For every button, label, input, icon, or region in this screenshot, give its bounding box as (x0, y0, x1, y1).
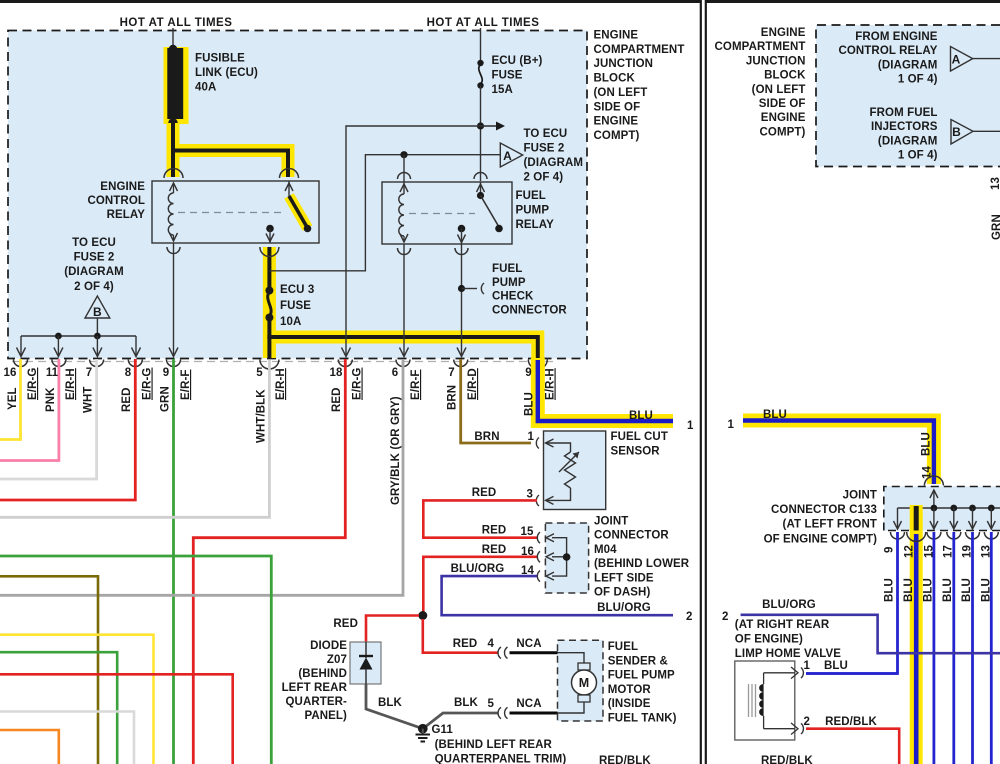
svg-text:RED: RED (121, 387, 133, 412)
flag A (from engine control relay) (951, 47, 973, 72)
svg-text:BLU/ORG: BLU/ORG (597, 602, 651, 614)
svg-text:JUNCTION: JUNCTION (746, 55, 806, 67)
svg-text:M: M (579, 676, 590, 690)
svg-text:9: 9 (884, 547, 896, 554)
fuel pump relay box (382, 182, 512, 244)
right page top border (706, 0, 1000, 3)
svg-text:E/R-H: E/R-H (545, 368, 557, 400)
C133 internal bus (898, 507, 1000, 509)
svg-text:E/R-F: E/R-F (410, 369, 422, 400)
svg-text:15: 15 (521, 526, 534, 538)
svg-text:RELAY: RELAY (107, 209, 146, 221)
svg-text:BLU: BLU (824, 660, 848, 672)
wire ECU3 net to fuel pump relay coil and triangle A (269, 155, 500, 271)
svg-text:SIDE OF: SIDE OF (759, 98, 806, 110)
wire B+ branch to pin 18 (346, 126, 481, 356)
wire DK YEL lower left (0, 576, 98, 764)
svg-text:BLU: BLU (763, 409, 787, 421)
wire WHT lower left (0, 712, 134, 764)
svg-text:1 OF 4): 1 OF 4) (898, 74, 938, 86)
wire BLU C133 pin 17 (952, 532, 955, 764)
page divider double line (700, 0, 702, 764)
flag B (to ECU fuse 2) (85, 296, 110, 318)
wire BLU valve pin 1 (806, 672, 898, 675)
svg-text:E/R-G: E/R-G (27, 368, 39, 400)
svg-text:RED: RED (482, 525, 507, 537)
limp home valve coil (763, 673, 765, 684)
svg-text:RED: RED (482, 544, 507, 556)
svg-text:FUSE: FUSE (280, 300, 311, 312)
svg-text:13: 13 (990, 177, 1000, 190)
wire from hot feed to fusible link (172, 28, 174, 47)
svg-text:FROM ENGINE: FROM ENGINE (855, 31, 937, 43)
fuel pump relay coil (403, 155, 405, 194)
svg-text:HOT AT ALL TIMES: HOT AT ALL TIMES (427, 17, 540, 29)
svg-text:MOTOR: MOTOR (608, 684, 652, 696)
svg-text:BLU: BLU (629, 410, 653, 422)
svg-text:BLOCK: BLOCK (594, 73, 636, 85)
wire ORG lower left (0, 730, 59, 764)
svg-text:FUSIBLE: FUSIBLE (195, 53, 245, 65)
wire BLU/ORG flag 2 across page (741, 615, 1000, 653)
svg-text:BRN: BRN (474, 431, 499, 443)
svg-text:ENGINE: ENGINE (594, 116, 639, 128)
wire BLU C133 pin 9 to limp home valve (806, 532, 898, 674)
junction block connector strip (gray dashed) (12, 361, 553, 363)
svg-text:JOINT: JOINT (594, 516, 628, 528)
svg-text:OF ENGINE): OF ENGINE) (735, 634, 803, 646)
svg-text:SENSOR: SENSOR (611, 446, 661, 458)
svg-text:ECU 3: ECU 3 (280, 284, 314, 296)
svg-text:A: A (503, 149, 512, 163)
wire RED sensor pin 3 to M04 pin 15 (423, 500, 537, 537)
flag B (from fuel injectors) (951, 120, 973, 145)
svg-text:RELAY: RELAY (516, 219, 555, 231)
M04 internal links (546, 534, 554, 542)
svg-text:(AT LEFT FRONT: (AT LEFT FRONT (783, 519, 877, 531)
svg-text:FUEL: FUEL (608, 641, 638, 653)
svg-text:1: 1 (687, 420, 694, 432)
wire fuel pump relay coil to pin 6 (403, 244, 405, 356)
svg-text:(BEHIND LOWER: (BEHIND LOWER (594, 558, 690, 570)
wire BLU/ORG M04 pin 14 to flag 2 (442, 576, 673, 615)
engine control relay thick pin bracket (260, 247, 279, 257)
svg-text:LIMP HOME VALVE: LIMP HOME VALVE (735, 648, 842, 660)
svg-text:NCA: NCA (516, 698, 541, 710)
wire RED/BLK valve pin 2 (806, 729, 899, 764)
wire BLK diode to ground G11 (366, 684, 423, 729)
wire RED lower left (0, 674, 233, 764)
wire BLK ground to fuel pump pin 5 (423, 713, 498, 729)
svg-text:1: 1 (728, 419, 735, 431)
svg-text:G11: G11 (432, 724, 454, 736)
wire GRY/BLK pin 6 (0, 359, 403, 595)
svg-text:RED: RED (472, 487, 497, 499)
svg-text:YEL: YEL (7, 387, 19, 410)
svg-text:15A: 15A (492, 84, 513, 96)
svg-text:RED: RED (453, 638, 478, 650)
svg-text:E/R-G: E/R-G (142, 368, 154, 400)
svg-text:LEFT REAR: LEFT REAR (282, 682, 348, 694)
svg-text:BLU: BLU (903, 578, 915, 602)
C133 bus drops (897, 508, 899, 529)
svg-text:LEFT SIDE: LEFT SIDE (594, 572, 654, 584)
svg-text:TO ECU: TO ECU (72, 237, 116, 249)
svg-text:CONNECTOR: CONNECTOR (594, 530, 669, 542)
svg-text:16: 16 (521, 546, 534, 558)
fusible link (ECU) 40A element (169, 45, 177, 53)
svg-text:10A: 10A (280, 316, 301, 328)
svg-text:OF DASH): OF DASH) (594, 587, 650, 599)
svg-text:INJECTORS: INJECTORS (871, 121, 938, 133)
wire BLU C133 pin 13 (990, 532, 993, 764)
highlighted BLU wire C133 pin 12 (910, 531, 923, 764)
svg-text:RED/BLK: RED/BLK (599, 755, 651, 764)
wire RED junction to fuel pump pin 4 (423, 619, 498, 653)
svg-text:(AT RIGHT REAR: (AT RIGHT REAR (735, 619, 830, 631)
svg-text:(ON LEFT: (ON LEFT (752, 84, 806, 96)
engine control relay coil (170, 183, 178, 191)
svg-text:BLU: BLU (921, 432, 933, 456)
svg-text:12: 12 (904, 545, 916, 558)
svg-text:2 OF 4): 2 OF 4) (74, 281, 114, 293)
fuel pump relay switch (open) (480, 182, 482, 196)
svg-text:7: 7 (448, 367, 455, 379)
svg-text:BRN: BRN (447, 385, 459, 410)
svg-text:E/R-F: E/R-F (180, 369, 192, 400)
svg-text:PUMP: PUMP (492, 277, 526, 289)
svg-text:CHECK: CHECK (492, 291, 534, 303)
M04 pin cups (537, 532, 540, 543)
wire GRN lower left 2 (0, 652, 117, 764)
wire fuel pump relay switch to pin 7 (461, 244, 463, 356)
svg-text:LINK (ECU): LINK (ECU) (195, 67, 258, 79)
limp home valve box (735, 661, 795, 740)
svg-text:8: 8 (125, 367, 132, 379)
engine control relay internal dashed link (178, 212, 284, 214)
fuel cut sensor box (544, 431, 606, 510)
svg-text:PANEL): PANEL) (304, 710, 347, 722)
svg-text:2: 2 (804, 716, 811, 728)
svg-text:ENGINE: ENGINE (761, 112, 806, 124)
svg-text:CONNECTOR C133: CONNECTOR C133 (771, 504, 877, 516)
svg-text:GRN: GRN (991, 214, 1000, 240)
svg-text:BLOCK: BLOCK (764, 70, 806, 82)
svg-text:18: 18 (330, 367, 343, 379)
wire WHT/BLK pin 5 (0, 360, 269, 517)
limp home valve pin 1 (791, 667, 798, 679)
C133 pin 14 entry cup and arrow (924, 476, 943, 486)
svg-text:RED/BLK: RED/BLK (825, 716, 877, 728)
svg-text:(BEHIND LEFT REAR: (BEHIND LEFT REAR (435, 739, 553, 751)
svg-text:(ON LEFT: (ON LEFT (594, 87, 648, 99)
wire from hot feed to ECU B+ fuse (480, 28, 482, 64)
svg-text:OF ENGINE COMPT): OF ENGINE COMPT) (764, 533, 877, 545)
joint connector M04 box (545, 523, 588, 593)
fuel pump relay pin brackets top (398, 173, 411, 180)
wire GRN pin 9 (172, 359, 175, 764)
svg-text:16: 16 (4, 367, 17, 379)
svg-text:FUSE 2: FUSE 2 (524, 143, 565, 155)
svg-text:11: 11 (46, 367, 59, 379)
svg-text:Z07: Z07 (327, 654, 347, 666)
svg-text:B: B (93, 305, 102, 319)
ground G11 (418, 724, 428, 734)
wire WHT pin 7 (0, 359, 97, 479)
C133 pin cups bottom (891, 532, 905, 539)
svg-text:BLU: BLU (524, 392, 536, 416)
wire RED junction to diode (366, 616, 419, 643)
svg-text:ECU (B+): ECU (B+) (492, 55, 543, 67)
svg-text:FUSE 2: FUSE 2 (74, 252, 115, 264)
wire flag B to distribution bus (96, 318, 98, 336)
svg-text:RED: RED (331, 387, 343, 412)
svg-text:FUEL: FUEL (516, 190, 546, 202)
wire RED M04 pin 16 to junction (423, 557, 537, 615)
engine compartment junction block box (8, 31, 587, 359)
junction block box (right page) (816, 25, 1000, 167)
limp home valve pin 2 (791, 723, 798, 735)
svg-text:BLU: BLU (884, 578, 896, 602)
distribution bus to pins 16 11 7 8 (21, 335, 136, 337)
svg-text:HOT AT ALL TIMES: HOT AT ALL TIMES (120, 17, 233, 29)
svg-text:PNK: PNK (45, 387, 57, 412)
engine control relay pin brackets top (164, 169, 183, 178)
svg-text:SENDER &: SENDER & (608, 655, 668, 667)
fuel cut sensor pin 3 (546, 496, 554, 504)
fuel cut sensor variable resistor (565, 452, 576, 488)
flag A (to ECU fuse 2) (500, 143, 522, 167)
svg-text:6: 6 (392, 367, 399, 379)
engine control relay switch (closed, highlighted) (288, 181, 290, 196)
svg-text:(DIAGRAM: (DIAGRAM (524, 157, 584, 169)
svg-text:B: B (952, 125, 961, 139)
wire YEL pin 16 (0, 359, 21, 440)
junction block pin connector cups (14, 360, 28, 367)
fuel pump relay pin brackets bottom (398, 248, 411, 255)
svg-text:FUEL CUT: FUEL CUT (611, 431, 668, 443)
ECU 3 fuse 10A element (265, 287, 273, 295)
svg-text:CONTROL RELAY: CONTROL RELAY (838, 45, 937, 57)
C133 pin 12 bracket (907, 532, 926, 542)
svg-text:COMPT): COMPT) (594, 130, 640, 142)
svg-text:FUEL: FUEL (492, 263, 522, 275)
highlighted wire relay to ECU3 fuse to pins 5 and 9 (263, 247, 276, 358)
svg-text:(DIAGRAM: (DIAGRAM (878, 135, 938, 147)
wire BRN pin 7 to fuel cut sensor (461, 359, 531, 443)
wire RED pin 8 (0, 359, 135, 500)
junction dot red distribution (418, 611, 427, 620)
svg-text:14: 14 (521, 565, 534, 577)
svg-text:E/R-G: E/R-G (352, 368, 364, 400)
wire GRN crossing lower left (0, 556, 271, 764)
fuel pump motor symbol (558, 653, 585, 663)
svg-text:40A: 40A (195, 82, 216, 94)
svg-text:M04: M04 (594, 544, 617, 556)
svg-text:WHT/BLK: WHT/BLK (256, 389, 268, 443)
svg-text:COMPARTMENT: COMPARTMENT (715, 41, 806, 53)
svg-text:9: 9 (163, 367, 170, 379)
wire BLU C133 pin 15 (933, 532, 936, 764)
junction dot B+ branch (477, 122, 484, 129)
svg-text:2: 2 (722, 611, 729, 623)
highlighted BLU wire pin 9 to flag 1 (538, 358, 673, 421)
svg-text:FUSE: FUSE (492, 70, 523, 82)
highlighted BLU wire to joint connector C133 pin 14 (743, 421, 934, 485)
svg-text:1 OF 4): 1 OF 4) (898, 150, 938, 162)
hot wire fusible link to engine control relay (highlighted) (167, 123, 180, 177)
svg-text:E/R-D: E/R-D (467, 368, 479, 400)
svg-text:9: 9 (525, 367, 532, 379)
engine control relay box (152, 181, 319, 243)
svg-text:5: 5 (256, 367, 263, 379)
wire ECU B+ fuse to fuel pump relay switch (480, 86, 482, 182)
ECU B+ fuse 15A element (477, 60, 483, 66)
svg-text:BLK: BLK (378, 697, 403, 709)
wire PNK pin 11 (0, 359, 59, 461)
svg-text:E/R-H: E/R-H (65, 368, 77, 400)
svg-text:RED: RED (333, 618, 358, 630)
svg-text:ENGINE: ENGINE (594, 30, 639, 42)
svg-text:BLU/ORG: BLU/ORG (451, 563, 505, 575)
svg-text:GRN: GRN (160, 386, 172, 412)
svg-text:CONNECTOR: CONNECTOR (492, 304, 567, 316)
svg-text:(INSIDE: (INSIDE (608, 698, 651, 710)
left page top border (0, 0, 700, 3)
wire YEL lower left (0, 635, 154, 764)
svg-text:NCA: NCA (516, 638, 541, 650)
svg-text:(BEHIND: (BEHIND (298, 668, 347, 680)
C133 highlighted pin 12 bar (910, 505, 923, 531)
engine control relay pin brackets bottom (167, 247, 180, 254)
svg-text:QUARTER-: QUARTER- (286, 696, 348, 708)
wire BLU C133 pin 19 (971, 532, 974, 764)
svg-text:1: 1 (804, 660, 811, 672)
joint connector C133 box (884, 487, 1000, 531)
svg-text:ENGINE: ENGINE (100, 181, 145, 193)
fusible link (ECU) 40A highlight (164, 47, 189, 124)
svg-text:7: 7 (86, 367, 93, 379)
svg-text:5: 5 (488, 698, 495, 710)
limp home valve core lines (748, 684, 750, 717)
svg-text:JUNCTION: JUNCTION (594, 58, 654, 70)
svg-text:(DIAGRAM: (DIAGRAM (878, 59, 938, 71)
svg-text:2: 2 (686, 611, 693, 623)
wire relay coil to pin 9 GRN (173, 243, 175, 356)
svg-text:FUEL TANK): FUEL TANK) (608, 713, 677, 725)
svg-text:WHT: WHT (83, 387, 95, 413)
svg-text:FUEL PUMP: FUEL PUMP (608, 670, 675, 682)
svg-text:JOINT: JOINT (843, 490, 877, 502)
svg-text:4: 4 (488, 638, 495, 650)
svg-text:1: 1 (528, 431, 535, 443)
svg-text:CONTROL: CONTROL (87, 195, 145, 207)
fuel sender and pump motor box (558, 640, 604, 721)
svg-text:2 OF 4): 2 OF 4) (524, 172, 564, 184)
svg-text:COMPT): COMPT) (760, 126, 806, 138)
wire RED pin 18 (193, 359, 345, 764)
svg-text:TO ECU: TO ECU (524, 128, 568, 140)
svg-text:GRY/BLK (OR GRY): GRY/BLK (OR GRY) (390, 396, 402, 505)
svg-text:PUMP: PUMP (516, 205, 550, 217)
svg-text:DIODE: DIODE (310, 640, 347, 652)
diode Z07 box (350, 642, 381, 684)
svg-text:3: 3 (527, 489, 534, 501)
svg-text:A: A (952, 53, 961, 67)
svg-text:E/R-H: E/R-H (275, 368, 287, 400)
svg-text:BLU: BLU (942, 578, 954, 602)
junction dot fuel pump relay coil feed (400, 151, 407, 158)
svg-text:COMPARTMENT: COMPARTMENT (594, 44, 685, 56)
svg-text:BLU/ORG: BLU/ORG (762, 599, 816, 611)
svg-text:QUARTERPANEL TRIM): QUARTERPANEL TRIM) (435, 754, 567, 764)
svg-text:BLK: BLK (454, 697, 479, 709)
fuel pump relay internal dashed link (409, 213, 475, 215)
arrow to ECU fuse 2 (right) (481, 125, 497, 127)
svg-text:ENGINE: ENGINE (761, 27, 806, 39)
svg-text:FROM FUEL: FROM FUEL (870, 107, 938, 119)
diode Z07 symbol (365, 642, 367, 658)
fuel pump check connector stub (458, 285, 465, 292)
svg-text:SIDE OF: SIDE OF (594, 101, 641, 113)
svg-text:(DIAGRAM: (DIAGRAM (64, 266, 124, 278)
svg-text:RED/BLK: RED/BLK (761, 755, 813, 764)
